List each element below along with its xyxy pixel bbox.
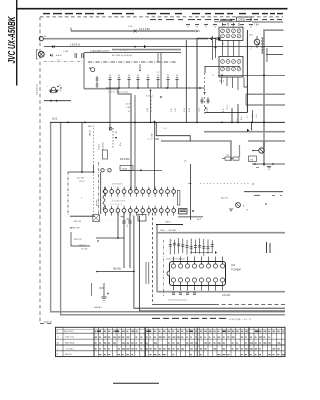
svg-text:4 7k: 4 7k — [223, 108, 225, 112]
wire vertical x84 — [83, 53, 85, 89]
bus wire B12 digital left vertical — [156, 225, 158, 292]
svg-text:CN18: CN18 — [122, 169, 128, 171]
svg-text:A.39680: A.39680 — [102, 142, 105, 150]
small dashes under W23 — [254, 194, 260, 196]
dashed vertical x151 with text — [150, 96, 152, 112]
leads of Q51 — [256, 36, 258, 39]
table column lines — [62, 327, 64, 356]
svg-text:DC 457: DC 457 — [77, 178, 85, 180]
svg-text:QRS ≡: QRS ≡ — [165, 221, 172, 224]
wire W25 vertical short — [266, 48, 268, 62]
resistor stubs on W3 — [109, 80, 111, 89]
svg-text:·s RQ 1·w L: ·s RQ 1·w L — [64, 337, 76, 339]
svg-text:RQ TOP: RQ TOP — [72, 228, 81, 230]
voltage chart table outline — [56, 327, 286, 356]
component cluster above IC2 — [169, 239, 171, 255]
svg-text:CN 57: CN 57 — [79, 181, 86, 183]
wire W14 vertical — [154, 122, 156, 190]
cluster of parts right of J1 — [50, 54, 52, 57]
svg-text:·· O2 1W C: ·· O2 1W C — [64, 348, 75, 350]
wire W22 right rail — [252, 163, 285, 165]
page frame vertical rule — [16, 0, 18, 86]
svg-text:4500–A: 4500–A — [44, 320, 52, 323]
svg-text:4 0: 4 0 — [127, 225, 129, 228]
table header dark blobs — [97, 330, 101, 332]
bus wire B7 horizontal with drop — [161, 141, 231, 161]
wire links in cluster — [222, 158, 225, 160]
component box 218 — [249, 156, 257, 162]
arrow down on dashed x204 — [203, 92, 206, 94]
bus wire B11 digital bottom — [157, 291, 285, 293]
transistor Q31 — [236, 203, 241, 208]
small box component x103 — [103, 150, 108, 159]
IC2 top pins — [171, 264, 175, 268]
bus wire B5 staircase — [84, 89, 131, 190]
wire W20 vertical — [190, 164, 192, 220]
ground symbol under W22 — [263, 164, 265, 166]
transistor Q5 cluster — [52, 87, 56, 91]
wire vertical pin feed — [100, 172, 102, 214]
transistor Q51 — [254, 39, 260, 45]
pin number row below CN201 — [186, 24, 190, 26]
svg-text:' ` ' ` ' ` ' ` ' `: ' ` ' ` ' ` ' ` ' ` — [109, 186, 119, 189]
svg-text:0 4 7 · 1: 0 4 7 · 1 — [146, 95, 153, 97]
svg-text:(1/2): (1/2) — [147, 108, 149, 112]
dashed vertical x204 — [204, 73, 206, 114]
IC block pin drop wires — [221, 78, 223, 85]
collector of Q52 to bus — [263, 141, 265, 148]
capacitor C1 polarized — [74, 53, 76, 58]
wire under end block — [178, 216, 203, 218]
IC block A pin ticks — [222, 23, 224, 26]
svg-text:24: 24 — [44, 36, 46, 38]
svg-text:(7): (7) — [184, 161, 187, 163]
svg-text:17k: 17k — [226, 155, 229, 157]
resistor R18 box — [233, 157, 239, 160]
dash-dot rail left of IC2 — [163, 240, 165, 296]
wire W10 elbow — [71, 232, 90, 246]
transistor Q11 small — [91, 68, 95, 72]
svg-text:MQ PLA 1 ··: MQ PLA 1 ·· — [64, 330, 75, 333]
svg-text:NR (1): NR (1) — [90, 130, 92, 136]
svg-text:(→): (→) — [156, 72, 160, 74]
bus wire bottom pair lower — [60, 314, 285, 316]
IC2 notch — [167, 271, 170, 276]
end bracket between pin rows — [177, 191, 180, 206]
junction dot at 119 on W3 — [118, 87, 120, 89]
connector CN4 pin row lower — [104, 209, 108, 213]
bus wire B6 horizontal right — [204, 131, 285, 133]
pin circles at strip top — [101, 169, 104, 172]
svg-text:· MQ2 W-A·: · MQ2 W-A· — [64, 342, 75, 345]
svg-text:∨ ∨: ∨ ∨ — [57, 58, 61, 61]
bus wire vertical right B9 — [263, 123, 265, 165]
svg-text:60·: 60· — [222, 44, 225, 46]
arrow mark near GND1 — [108, 292, 110, 294]
footer rule — [113, 382, 159, 384]
stub at x158 top — [157, 53, 159, 62]
wire W16 corner to right — [197, 37, 217, 39]
svg-text:CN-5: CN-5 — [219, 81, 225, 83]
tick at start of B1 — [70, 28, 72, 32]
wire digital box top edge — [156, 224, 183, 226]
connector CN3 pin row upper — [104, 190, 108, 194]
component box with X — [93, 215, 100, 222]
svg-text:4.7: 4.7 — [128, 111, 131, 113]
svg-text:TC9462F: TC9462F — [231, 269, 242, 272]
table cell data dashes — [95, 330, 97, 332]
dashed border bottom-left corner — [40, 323, 54, 325]
bus wire left vertical V2 — [60, 122, 62, 315]
dashed border left — [39, 17, 41, 324]
wire vertical x161 — [160, 53, 162, 88]
diode D1 on W1 left — [52, 45, 54, 48]
wire top right thin y21.8 — [214, 21, 236, 23]
wire W6 vertical dash-dot — [67, 172, 69, 216]
arrowheads at B2 end — [210, 37, 212, 40]
svg-text:Tr·: Tr· — [212, 75, 215, 77]
component blobs above W2 — [50, 90, 52, 93]
svg-text:3-8·(7)·3-8: 3-8·(7)·3-8 — [36, 84, 38, 95]
main bus wire W4 — [50, 121, 285, 123]
wire horizontal to MQ node — [97, 271, 134, 273]
wire link in cluster — [190, 252, 212, 254]
svg-text:V μPC4570 4.5 P V: V μPC4570 4.5 P V — [90, 51, 110, 53]
vertical stubs under connector block — [231, 108, 233, 122]
wire W7 horizontal — [68, 171, 94, 173]
cluster diode D3 — [112, 128, 114, 148]
tick right — [252, 183, 254, 185]
svg-text:C210 C211 C212 C213: C210 C211 C212 C213 — [168, 300, 187, 302]
svg-text:≈≈ 6-7 (2.8) –– 1.2 ·· 3: ≈≈ 6-7 (2.8) –– 1.2 ·· 3 — [229, 318, 252, 321]
svg-text:Q·02: Q·02 — [52, 119, 58, 121]
svg-text:- 4 -: - 4 - — [147, 139, 151, 141]
top signal name labels row 2 (right) — [150, 19, 156, 21]
svg-text:L R G S D K: L R G S D K — [112, 184, 123, 186]
svg-text:MQ (M): MQ (M) — [113, 269, 121, 271]
table section divider lines — [93, 327, 95, 356]
base lead of Q52 — [253, 150, 259, 152]
bus wire left vertical V1 — [50, 122, 52, 312]
wire W15 vertical long — [196, 38, 198, 123]
bus vertical joining Y94-Y105 — [245, 94, 247, 105]
wire W2 with junctions — [44, 100, 71, 102]
stub marks under Q11 — [96, 76, 98, 88]
svg-text:MR 1W: MR 1W — [74, 221, 81, 223]
svg-text:· 1 · 2 · 3 · 4 · 5: · 1 · 2 · 3 · 4 · 5 — [109, 204, 121, 206]
connector CN201 label — [237, 17, 252, 22]
svg-text:1 404: 1 404 — [63, 51, 69, 53]
wire W28 vertical — [117, 212, 119, 238]
svg-text:20-: 20- — [197, 30, 201, 33]
wire W23 right rail lower — [244, 191, 283, 193]
stub at x140 top — [139, 64, 141, 70]
wire vertical x212 — [212, 36, 214, 60]
dashed vertical x93 — [93, 128, 95, 214]
stub above W7 — [93, 165, 95, 172]
cluster C117 area — [201, 97, 203, 104]
text dashes above table left — [152, 317, 160, 319]
wire W27 vertical — [129, 212, 131, 268]
bus wire B10 digital top — [157, 232, 285, 234]
component column right of Q51 — [261, 37, 264, 39]
wire top right horizontal — [252, 21, 283, 23]
IC block B outline — [219, 57, 243, 78]
arrow in cluster — [215, 251, 217, 254]
svg-text:R1: R1 — [59, 85, 61, 87]
short vertical near ground cluster — [91, 283, 93, 296]
wire vertical x215 with arrow — [215, 40, 217, 58]
wire W14a vertical above bus — [150, 90, 152, 122]
svg-text:IC2: IC2 — [231, 263, 236, 267]
svg-text:1/1 400: 1/1 400 — [152, 132, 154, 140]
wire W13 vertical — [134, 95, 136, 191]
end block of pin row — [179, 209, 188, 214]
resistor R17 box — [225, 157, 231, 160]
svg-text:B.1 CH2 Lp (2-8) Vp: B.1 CH2 Lp (2-8) Vp — [112, 55, 133, 57]
ground symbol GND1 — [101, 296, 107, 298]
svg-text:2 2 0 4 7 1 0 k 2 2 3 3 0: 2 2 0 4 7 1 0 k 2 2 3 3 0 — [108, 92, 128, 94]
node junction on B1 — [134, 29, 137, 32]
wire into CN201 with arrow — [220, 19, 230, 21]
svg-text:Lo(9v): Lo(9v) — [99, 144, 101, 150]
wire W26 vertical — [123, 212, 125, 268]
connector body wavy left end — [103, 187, 105, 210]
svg-text:DO 1M: DO 1M — [81, 248, 88, 250]
gray stub with resistor — [239, 145, 241, 157]
dash marks left of B7 — [155, 138, 159, 140]
wire elbow to x252 — [244, 78, 247, 88]
wire W19 horizontal — [120, 169, 162, 171]
svg-text:1 2 3 4 5 6 7 8: 1 2 3 4 5 6 7 8 — [112, 201, 126, 203]
bus wire B3 horizontal — [112, 49, 181, 51]
svg-text:4 1k: 4 1k — [241, 116, 243, 120]
svg-text:AP3968: AP3968 — [96, 200, 99, 206]
svg-text:DR UP: DR UP — [79, 245, 86, 247]
svg-text:L 5V: L 5V — [184, 107, 186, 112]
dashed divider left of digital block — [152, 208, 154, 305]
IC block A outline — [219, 27, 243, 40]
long wire drop from pin 6 — [140, 216, 286, 311]
arrow on W1 — [144, 45, 146, 48]
wire W1 full width — [44, 46, 283, 48]
extra marks near x97 y84 — [96, 83, 99, 85]
connector pin circle top-left — [39, 37, 43, 41]
IC block B pins — [221, 60, 225, 64]
svg-text:CN201: CN201 — [238, 19, 246, 22]
bus wire bottom pair upper — [50, 311, 285, 313]
dash-dot divider y61 left part — [44, 61, 84, 63]
svg-text:2 2V: 2 2V — [189, 107, 191, 112]
IC block A pins — [221, 29, 225, 33]
top signal name labels row — [43, 13, 50, 15]
wire to ground bottom left — [103, 283, 105, 297]
wire W18 elbow — [205, 66, 240, 73]
svg-text:– – –– – –: – – –– – – — [120, 50, 129, 52]
svg-text:C204 C205 R201 R202: C204 C205 R201 R202 — [166, 259, 185, 261]
wire W9 horizontal — [96, 237, 124, 239]
wire vertical x252 short — [252, 110, 254, 123]
svg-text:· M2 W·L: · M2 W·L — [64, 354, 73, 356]
small box above strip end — [138, 215, 146, 222]
dotted line mid right — [200, 183, 250, 185]
bus wire B2 horizontal — [44, 38, 209, 40]
dashed divider bottom of digital block — [215, 304, 285, 306]
svg-text:C2-1 2-8V: C2-1 2-8V — [139, 28, 150, 31]
svg-text:1 k 3: 1 k 3 — [256, 114, 258, 118]
svg-text:2 2k: 2 2k — [171, 108, 173, 112]
svg-text:2SC: 2SC — [249, 35, 254, 37]
svg-text:JVC UX-A50BK: JVC UX-A50BK — [7, 16, 18, 64]
bus wire right Y94 — [246, 93, 285, 95]
bus wire B1 horizontal — [71, 30, 195, 32]
capacitor C2 polarized — [81, 53, 83, 58]
table header tick row — [56, 329, 286, 331]
svg-text:7 64: 7 64 — [254, 25, 259, 27]
marks under W22 left — [256, 167, 259, 169]
svg-text:MD LU: MD LU — [88, 126, 95, 128]
table row lines — [56, 332, 286, 334]
arrow up at bus on W14 — [153, 120, 156, 122]
short stubs right of drops — [145, 262, 147, 284]
arrow down on x215 — [214, 47, 217, 49]
svg-text:CN6 – – DIGITAL: CN6 – – DIGITAL — [160, 229, 177, 232]
svg-text:47μ: 47μ — [120, 143, 122, 146]
wire W24 short right — [266, 54, 283, 56]
dashed border top — [40, 16, 283, 18]
svg-text:CD A/D: CD A/D — [222, 294, 231, 297]
wire W12 vertical — [109, 88, 111, 131]
svg-text:1 6: 1 6 — [237, 119, 239, 122]
IC2 bottom pins — [171, 278, 175, 282]
interconnect wires between IC blocks — [222, 40, 224, 56]
page frame top rule — [16, 8, 288, 10]
svg-text:1 4(0.5 V): 1 4(0.5 V) — [70, 44, 80, 46]
tick on W20 — [189, 183, 192, 185]
svg-text:DA DA ≠: DA DA ≠ — [94, 306, 103, 309]
junction dot on W1 x135 — [134, 46, 136, 48]
marks right of digital bus — [266, 242, 268, 253]
svg-text:2 2: 2 2 — [247, 116, 249, 119]
transistor Q52 right — [259, 148, 264, 153]
connector jack J1 circle with X — [38, 51, 44, 57]
long wire drop from pin 5 — [134, 216, 285, 309]
wire right rail y75 — [218, 74, 285, 76]
bus wire B4 corner top-right — [264, 30, 284, 123]
wire W17 vertical — [185, 40, 187, 122]
wire W3 component rail — [106, 87, 205, 89]
ground symbol near Q31 — [229, 208, 233, 210]
wire W5 vertical — [81, 122, 83, 172]
capacitor marks on W26 W27 — [122, 220, 126, 222]
svg-text:(Tr) 2: (Tr) 2 — [251, 113, 254, 118]
amplifier rail with labels — [84, 52, 181, 54]
svg-text:C 08: C 08 — [126, 107, 130, 109]
svg-text:C121: C121 — [227, 105, 229, 110]
IC2 TC9462F outline — [170, 262, 226, 286]
wire vertical x247 long — [246, 30, 248, 113]
junction marks at top of strip verticals — [120, 216, 123, 218]
svg-text:1 2: 1 2 — [251, 48, 253, 51]
triangle mark — [89, 67, 91, 69]
wire W8 horizontal — [70, 215, 95, 217]
bus wire B1 arrowhead — [196, 29, 198, 32]
wire elbow under main bus — [156, 122, 190, 141]
bus wire right Y105 — [246, 104, 285, 106]
wire to dashed divider — [153, 304, 215, 306]
bus wire B8 horizontal right — [248, 140, 285, 142]
arrow down mid — [160, 97, 162, 99]
svg-text:NQ (7): NQ (7) — [221, 198, 228, 200]
dash-dot rail x98.5 — [98, 162, 100, 216]
arrow into vertical x251 — [251, 123, 253, 130]
label CN181 — [120, 166, 133, 171]
wire horizontal y112 to dashed rail — [205, 111, 248, 113]
svg-text:4.7k: 4.7k — [58, 90, 62, 92]
amplifier rail 2 dash-dot — [88, 61, 176, 63]
component cluster below IC2 — [172, 292, 175, 294]
horizontal tick — [99, 287, 104, 289]
bracket at J1 — [37, 50, 39, 60]
svg-text:10k: 10k — [116, 131, 118, 134]
svg-text:5M TOP: 5M TOP — [74, 239, 82, 241]
svg-text:· · · · · · · · · · ·: · · · · · · · · · · · — [106, 219, 118, 221]
svg-text:DK 4033: DK 4033 — [120, 158, 130, 161]
